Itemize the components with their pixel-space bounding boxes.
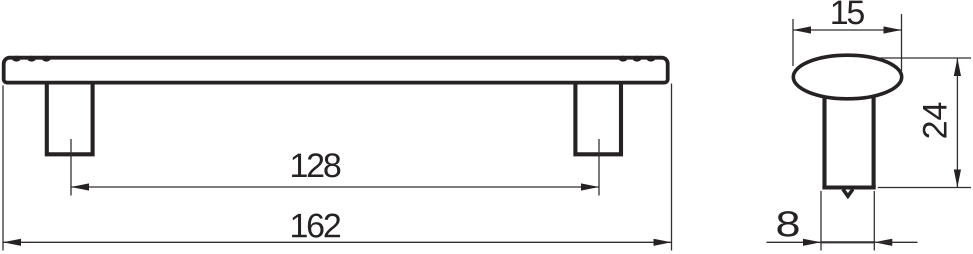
stem (side view) (822, 88, 875, 188)
extension line right (8) (873, 191, 875, 251)
handle bar (front view) (4, 58, 668, 83)
left leg (47, 84, 93, 155)
dimension text 128 (289, 147, 340, 185)
extension line top (24) (877, 57, 971, 59)
dimension line 162 (3, 239, 672, 246)
extension line bottom (24) (878, 187, 971, 189)
svg-text:128: 128 (289, 147, 340, 185)
knurl bumps left end (12, 56, 50, 62)
extension line left (162) (2, 86, 4, 251)
right hole centerline (598, 139, 600, 196)
dimension line 8 (767, 239, 918, 246)
handle head ellipse (side view) (793, 55, 901, 99)
svg-text:24: 24 (917, 102, 955, 140)
dimension line 128 (71, 183, 599, 190)
left hole centerline (70, 139, 72, 196)
svg-text:15: 15 (830, 0, 865, 32)
knurl bumps right end (619, 56, 655, 62)
dimension text 8 (775, 204, 800, 245)
dimension line 15 (793, 26, 902, 33)
extension line right (15) (901, 14, 903, 71)
extension line right (162) (671, 84, 673, 251)
extension line left (15) (792, 19, 794, 66)
screw tip notch (843, 189, 853, 196)
extension line left (8) (820, 191, 822, 251)
dimension text 162 (289, 207, 340, 245)
dimension text 15 (830, 0, 865, 32)
svg-text:8: 8 (775, 204, 800, 245)
right leg (575, 84, 621, 155)
dimension line 24 (954, 58, 961, 188)
svg-text:162: 162 (289, 207, 340, 245)
dimension text 24 (917, 102, 955, 140)
